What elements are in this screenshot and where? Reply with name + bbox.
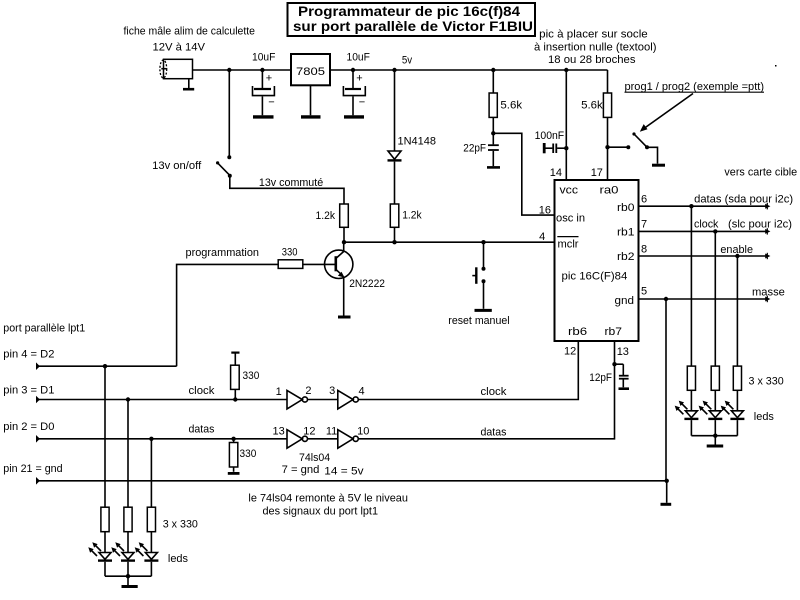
svg-text:330: 330 bbox=[243, 370, 260, 382]
ground of left leds bbox=[122, 585, 138, 588]
labels pic a placer sur socle bbox=[534, 28, 657, 66]
svg-text:clock: clock bbox=[481, 386, 507, 398]
inverter U3C bbox=[273, 426, 316, 449]
svg-text:1: 1 bbox=[276, 386, 282, 398]
node 5v bbox=[392, 55, 412, 73]
wire masse column bbox=[665, 299, 667, 481]
stray mark bbox=[775, 65, 777, 67]
svg-text:pin 3 = D1: pin 3 = D1 bbox=[3, 384, 54, 396]
svg-text:leds: leds bbox=[168, 553, 189, 565]
LED D5 bbox=[88, 542, 112, 576]
resistor R6 330 pull-up 5v bbox=[231, 353, 260, 400]
svg-text:7 = gnd: 7 = gnd bbox=[282, 464, 320, 476]
svg-text:+: + bbox=[266, 73, 272, 85]
svg-text:clock: clock bbox=[189, 385, 215, 397]
ground of Q1 bbox=[338, 316, 351, 319]
svg-text:rb1: rb1 bbox=[617, 227, 635, 239]
svg-text:13: 13 bbox=[273, 426, 285, 438]
svg-text:13v commuté: 13v commuté bbox=[259, 177, 323, 189]
svg-text:16: 16 bbox=[539, 205, 551, 217]
svg-text:13v on/off: 13v on/off bbox=[152, 160, 202, 172]
svg-text:14 = 5v: 14 = 5v bbox=[324, 466, 364, 478]
svg-text:13: 13 bbox=[617, 346, 629, 358]
svg-text:12V à 14V: 12V à 14V bbox=[153, 42, 206, 54]
wire rb2 enable out bbox=[639, 244, 771, 259]
svg-text:2N2222: 2N2222 bbox=[349, 278, 385, 290]
svg-text:5v: 5v bbox=[402, 55, 413, 67]
note text 74ls04 bbox=[248, 493, 408, 518]
LED D2 bbox=[675, 401, 699, 436]
resistor R2 1.2k (collector load) bbox=[316, 204, 349, 242]
diode D1 1N4148 bbox=[388, 136, 437, 204]
resistor R13 330 (led enable) bbox=[733, 256, 741, 411]
wire pin 3 D1 line bbox=[36, 385, 287, 403]
svg-text:rb6: rb6 bbox=[568, 326, 587, 338]
wire 13v commute bbox=[230, 176, 344, 204]
svg-text:10: 10 bbox=[357, 426, 369, 438]
svg-text:rb2: rb2 bbox=[617, 251, 635, 263]
wire rail 7805 to 5.6k corner bbox=[330, 69, 608, 71]
IC U1 pic 16C(F)84 bbox=[555, 180, 639, 341]
svg-text:pic 16C(F)84: pic 16C(F)84 bbox=[562, 271, 628, 283]
svg-text:port parallèle lpt1: port parallèle lpt1 bbox=[3, 323, 85, 335]
wire mclr line bbox=[342, 240, 555, 244]
svg-text:datas: datas bbox=[481, 427, 507, 439]
svg-text:14: 14 bbox=[550, 167, 562, 179]
svg-text:ra0: ra0 bbox=[600, 185, 619, 197]
svg-text:12: 12 bbox=[303, 426, 315, 438]
svg-text:6: 6 bbox=[641, 194, 647, 206]
node junction 13v tap bbox=[227, 68, 231, 72]
resistor R9 330 (led D1) bbox=[124, 400, 132, 553]
svg-text:100nF: 100nF bbox=[535, 130, 565, 142]
connector J1 power plug bbox=[160, 59, 193, 78]
svg-text:74ls04: 74ls04 bbox=[299, 452, 330, 464]
svg-text:10uF: 10uF bbox=[347, 51, 371, 63]
wire U3C to U3D bbox=[308, 438, 338, 440]
svg-text:2: 2 bbox=[305, 385, 311, 397]
ground of R7 bbox=[228, 472, 240, 475]
svg-text:fiche mâle alim de calculette: fiche mâle alim de calculette bbox=[124, 26, 256, 38]
wire pin 4 D2 line bbox=[36, 362, 177, 370]
svg-text:5: 5 bbox=[641, 286, 647, 298]
svg-text:vers carte cible: vers carte cible bbox=[724, 167, 797, 179]
LED D7 bbox=[135, 542, 159, 576]
wire U3A to U3B bbox=[308, 399, 338, 401]
svg-text:1.2k: 1.2k bbox=[402, 210, 422, 222]
svg-text:18 ou 28 broches: 18 ou 28 broches bbox=[548, 54, 636, 66]
push button reset manuel bbox=[448, 240, 509, 327]
wire programmation to port pin4 bbox=[177, 264, 279, 366]
svg-text:−: − bbox=[359, 97, 365, 109]
ground of C5 bbox=[619, 387, 630, 390]
svg-text:3: 3 bbox=[329, 385, 335, 397]
svg-text:10uF: 10uF bbox=[252, 51, 276, 63]
svg-text:rb0: rb0 bbox=[617, 202, 635, 214]
svg-text:7: 7 bbox=[641, 219, 647, 231]
svg-text:3 x 330: 3 x 330 bbox=[163, 519, 198, 531]
svg-text:masse: masse bbox=[752, 287, 785, 299]
ground of S2 bbox=[652, 164, 665, 167]
svg-text:vcc: vcc bbox=[560, 185, 579, 197]
svg-text:programmation: programmation bbox=[186, 247, 260, 259]
svg-text:+: + bbox=[356, 73, 362, 85]
ground of C1 bbox=[253, 115, 274, 118]
label fiche male alim bbox=[124, 26, 256, 54]
resistor R4 5.6k (osc) bbox=[489, 68, 523, 136]
inverter U3B bbox=[329, 385, 365, 409]
resistor R11 330 (led datas) bbox=[687, 206, 695, 411]
capacitor C1 10uF bbox=[252, 51, 276, 115]
ground of J1 bbox=[183, 79, 194, 90]
svg-text:le 74ls04 remonte à 5V le nive: le 74ls04 remonte à 5V le niveau bbox=[248, 493, 408, 505]
wire vcc pin 14 bbox=[550, 68, 569, 180]
svg-text:Programmateur de pic 16c(f)84: Programmateur de pic 16c(f)84 bbox=[298, 3, 520, 19]
svg-text:osc in: osc in bbox=[556, 213, 585, 225]
svg-text:pin 21 = gnd: pin 21 = gnd bbox=[3, 463, 62, 475]
svg-text:1.2k: 1.2k bbox=[316, 210, 336, 222]
switch S1 13v on/off bbox=[152, 155, 232, 178]
svg-text:datas (sda pour i2c): datas (sda pour i2c) bbox=[694, 194, 793, 206]
wire gnd masse out bbox=[639, 287, 785, 303]
wire to osc in pin 16 bbox=[493, 133, 554, 215]
svg-text:1N4148: 1N4148 bbox=[398, 136, 437, 148]
LED D3 bbox=[699, 401, 723, 436]
wire pin 2 D0 line bbox=[36, 424, 287, 443]
resistor R7 330 (datas to gnd) bbox=[229, 439, 256, 472]
inverter U3A bbox=[276, 385, 312, 409]
svg-text:17: 17 bbox=[591, 167, 603, 179]
svg-text:à insertion nulle (textool): à insertion nulle (textool) bbox=[534, 41, 657, 53]
LED D6 bbox=[111, 542, 135, 576]
ground of gnd line bbox=[661, 481, 672, 505]
svg-text:22pF: 22pF bbox=[463, 143, 486, 155]
capacitor C5 12pF bbox=[589, 362, 628, 387]
svg-text:12pF: 12pF bbox=[589, 372, 612, 384]
wire rb0 datas out bbox=[639, 194, 794, 210]
svg-text:5.6k: 5.6k bbox=[500, 100, 522, 112]
wire led common left bbox=[105, 574, 151, 585]
switch S2 prog1/prog2 bbox=[608, 132, 658, 163]
svg-text:pic à placer sur socle: pic à placer sur socle bbox=[539, 28, 648, 40]
svg-text:(slc pour i2c): (slc pour i2c) bbox=[728, 219, 792, 231]
svg-text:clock: clock bbox=[694, 219, 719, 231]
resistor R3 330 (base) bbox=[278, 247, 336, 269]
annotation arrow to switch bbox=[640, 94, 693, 132]
capacitor C3 22pF bbox=[463, 133, 499, 166]
ground of C3 bbox=[487, 166, 500, 169]
capacitor C2 10uF bbox=[343, 51, 370, 115]
wire 13v drop bbox=[228, 70, 230, 157]
title box bbox=[288, 3, 536, 36]
svg-text:330: 330 bbox=[240, 448, 257, 460]
resistor R8 330 (led D2) bbox=[101, 366, 109, 552]
capacitor C4 100nF bbox=[535, 130, 569, 153]
svg-text:12: 12 bbox=[564, 346, 576, 358]
ground of reset button bbox=[475, 309, 492, 312]
svg-text:7805: 7805 bbox=[296, 66, 325, 78]
svg-text:8: 8 bbox=[641, 244, 647, 256]
svg-text:gnd: gnd bbox=[615, 295, 635, 307]
svg-text:4: 4 bbox=[539, 231, 545, 243]
resistor R5 5.6k (ra0) bbox=[581, 70, 612, 149]
svg-text:sur port parallèle de Victor F: sur port parallèle de Victor F1BIU bbox=[293, 18, 533, 34]
resistor R12 330 (led clock) bbox=[711, 231, 719, 410]
svg-text:−: − bbox=[268, 97, 274, 109]
ground of C2 bbox=[344, 115, 364, 118]
wire main rail from plug to 7805 bbox=[193, 69, 292, 71]
regulator U2 7805 bbox=[291, 54, 330, 85]
wire rb7 pin 13 to datas bbox=[358, 341, 614, 439]
resistor R1 1.2k (mclr pull-up) bbox=[390, 204, 422, 242]
svg-text:des signaux du port lpt1: des signaux du port lpt1 bbox=[263, 506, 379, 518]
svg-text:5.6k: 5.6k bbox=[581, 100, 603, 112]
ground of right leds bbox=[707, 445, 724, 448]
transistor Q1 2N2222 bbox=[325, 242, 386, 315]
LED D4 bbox=[721, 401, 745, 436]
wire led common right bbox=[691, 434, 737, 445]
wire pin 17 bbox=[591, 147, 608, 180]
wire rb1 clock out bbox=[639, 219, 793, 235]
svg-text:mclr: mclr bbox=[558, 239, 579, 251]
svg-text:330: 330 bbox=[282, 247, 298, 259]
svg-text:prog1 / prog2 (exemple =ptt): prog1 / prog2 (exemple =ptt) bbox=[625, 81, 765, 93]
wire 5v to diode bbox=[394, 70, 396, 151]
resistor R10 330 (led D0) bbox=[147, 439, 155, 553]
wire rb6 pin 12 to clock bbox=[358, 341, 578, 400]
svg-text:leds: leds bbox=[754, 411, 775, 423]
svg-text:reset manuel: reset manuel bbox=[448, 315, 509, 327]
svg-text:3 x 330: 3 x 330 bbox=[749, 376, 784, 388]
wire pin 21 gnd line bbox=[36, 477, 669, 485]
inverter U3D bbox=[326, 426, 369, 449]
svg-text:pin 4 = D2: pin 4 = D2 bbox=[3, 349, 54, 361]
svg-text:pin 2 = D0: pin 2 = D0 bbox=[3, 421, 54, 433]
ground of U2 bbox=[301, 85, 321, 117]
svg-text:datas: datas bbox=[189, 424, 215, 436]
svg-text:4: 4 bbox=[359, 386, 365, 398]
svg-text:11: 11 bbox=[326, 426, 337, 438]
svg-text:rb7: rb7 bbox=[605, 326, 623, 338]
svg-text:enable: enable bbox=[720, 244, 753, 256]
label prog1/prog2 with underline bbox=[625, 81, 765, 93]
